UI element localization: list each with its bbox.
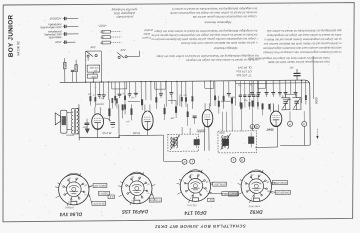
svg-text:DAF91 1S5: DAF91 1S5 (122, 208, 148, 214)
svg-text:probeschaltpl: probeschaltpl (116, 15, 134, 19)
svg-text:prophyl: prophyl (144, 28, 154, 32)
svg-text:Spannungen 500l: Spannungen 500l (40, 25, 62, 29)
svg-text:heibe ist darauf zu achten das: heibe ist darauf zu achten dass der Zeig… (266, 33, 341, 38)
svg-text:nscheibe ist darauf zu achten: nscheibe ist darauf zu achten dass der Z… (169, 11, 257, 16)
svg-text:0,1: 0,1 (209, 198, 213, 201)
svg-text:TON: TON (91, 75, 96, 77)
svg-text:m Drehko genau auf der Marke s: m Drehko genau auf der Marke steht Die B… (263, 42, 341, 47)
svg-text:DL94 3V4: DL94 3V4 (59, 211, 82, 217)
svg-text:DF91: DF91 (133, 131, 140, 135)
svg-text:g: g (251, 125, 253, 129)
svg-text:AF2: AF2 (90, 45, 96, 49)
svg-text:DM31 200: DM31 200 (94, 184, 106, 187)
svg-text:r Zeiger bei eingedrehtem Dreh: r Zeiger bei eingedrehtem Drehko genau a… (192, 15, 257, 19)
svg-text:a302: a302 (83, 127, 89, 129)
svg-text:DK92: DK92 (250, 208, 263, 214)
svg-text:0,1: 0,1 (93, 95, 96, 97)
svg-text:aufolgeplan 200b: aufolgeplan 200b (113, 11, 135, 15)
svg-text:SCHALTPLAN BOY JUNIOR MIT DK92: SCHALTPLAN BOY JUNIOR MIT DK92 (154, 224, 245, 230)
svg-text:DF91 1T4: DF91 1T4 (184, 209, 206, 215)
svg-text:2-teil hl: 2-teil hl (142, 36, 152, 40)
svg-text:p: p (183, 160, 186, 164)
svg-text:150: 150 (100, 36, 105, 39)
svg-text:GRUEN 200: GRUEN 200 (275, 191, 290, 194)
svg-text:DK92 200B: DK92 200B (273, 181, 286, 184)
svg-text:bei endgultiger Befestigung de: bei endgultiger Befestigung der Skalensc… (153, 29, 257, 34)
svg-text:GL23 100: GL23 100 (93, 202, 105, 205)
svg-text:DF91 200: DF91 200 (214, 183, 226, 186)
svg-text:ch dem Einsetzen angeschlossen: ch dem Einsetzen angeschlossen rote Leit… (263, 50, 342, 55)
svg-text:b: b (256, 125, 258, 129)
svg-text:steht Die Batterien werden nac: steht Die Batterien werden nach dem Eins… (263, 46, 342, 51)
svg-text:VOLUME: VOLUME (89, 66, 99, 68)
svg-text:1-HBLV3: 1-HBLV3 (65, 207, 75, 209)
svg-text:A 100: A 100 (230, 192, 238, 195)
svg-text:htem Drehko genau auf der Mark: htem Drehko genau auf der Marke steht Di… (267, 60, 329, 64)
svg-text:A302AF: A302AF (65, 134, 75, 137)
svg-text:DL 94 3V4: DL 94 3V4 (238, 66, 252, 70)
svg-text:200V: 200V (54, 40, 62, 44)
svg-text:V-01 313: V-01 313 (187, 205, 197, 207)
svg-text:ss der Zeiger bei eingedrehtem: ss der Zeiger bei eingedrehtem Drehko ge… (264, 37, 342, 42)
svg-text:450/PK: 450/PK (197, 130, 205, 133)
svg-text:8008: 8008 (314, 97, 318, 104)
svg-text:nscheibe ist darauf zu achten: nscheibe ist darauf zu achten dass der Z… (185, 58, 258, 63)
svg-text:Allgemeine Hinweise: Allgemeine Hinweise (204, 20, 232, 24)
svg-text:3V4 W: 3V4 W (103, 131, 112, 135)
svg-text:anber: anber (143, 32, 150, 36)
svg-text:2 bei Stuck: 2 bei Stuck (248, 205, 261, 208)
svg-text:bei endgultiger Befestigung de: bei endgultiger Befestigung der Skalensc… (156, 54, 259, 59)
svg-text:200/250V: 200/250V (49, 16, 62, 20)
svg-text:BOY JUNIOR: BOY JUNIOR (7, 14, 14, 57)
svg-text:~220V~: ~220V~ (97, 24, 107, 28)
svg-text:2p2: 2p2 (289, 67, 295, 69)
svg-text:b: b (241, 158, 243, 162)
svg-text:a: a (289, 122, 291, 126)
svg-text:b: b (303, 122, 305, 126)
svg-text:sprechtpl schalplegg: sprechtpl schalplegg (111, 8, 137, 12)
svg-text:Spannlebe: Spannlebe (49, 35, 62, 39)
svg-text:Wichtige Hinweise: Wichtige Hinweise (214, 46, 238, 50)
svg-text:mit DK 92: mit DK 92 (16, 41, 20, 56)
svg-text:DT 1T4 91u: DT 1T4 91u (236, 69, 252, 73)
svg-text:0,5: 0,5 (109, 195, 113, 198)
svg-text:r Zeiger bei eingedrehtem Dreh: r Zeiger bei eingedrehtem Drehko genau a… (151, 37, 258, 42)
svg-text:220: 220 (100, 30, 106, 33)
svg-text:u auf der Marke steht Die Batt: u auf der Marke steht Die Batterien werd… (181, 41, 258, 46)
svg-text:GEDR 1: GEDR 1 (98, 192, 108, 195)
svg-text:TT 1S5 91b: TT 1S5 91b (236, 73, 252, 77)
svg-text:AF2: AF2 (120, 48, 126, 52)
svg-text:/4V: /4V (110, 126, 115, 129)
svg-text:nscheibe ist darauf zu achten: nscheibe ist darauf zu achten dass der Z… (151, 33, 257, 38)
svg-text:bei endgultiger Befestigung de: bei endgultiger Befestigung der Skalensc… (172, 7, 258, 12)
svg-text:450/F: 450/F (219, 132, 225, 135)
svg-text:.0K92: .0K92 (267, 128, 274, 131)
svg-text:iger Befestigung der Skalensch: iger Befestigung der Skalenscheibe ist d… (266, 29, 341, 34)
